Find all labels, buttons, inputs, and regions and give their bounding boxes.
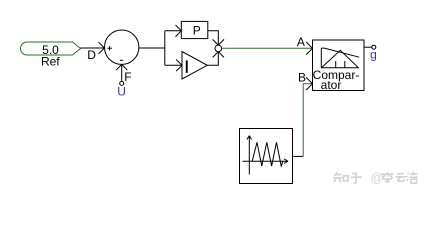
integrator block I (triangle) (182, 52, 207, 80)
constant source REF1 (pill shape) (21, 42, 81, 55)
arrowhead into I block (176, 60, 182, 72)
output terminal circle (372, 45, 376, 49)
arrowhead into comparator B (306, 77, 312, 90)
svg-text:D: D (87, 48, 96, 62)
icon axes (243, 137, 288, 175)
plus sign (107, 46, 112, 51)
svg-text:@: @ (371, 170, 384, 185)
svg-text:U: U (117, 84, 126, 98)
svg-text:B: B (298, 71, 306, 85)
axis arrowheads (247, 136, 288, 164)
arrowhead into summer left input (99, 42, 105, 54)
wire P output (208, 31, 219, 45)
comparator block (313, 40, 365, 91)
wire to I block (165, 64, 182, 66)
watermark 知乎 @李云浩 (333, 172, 418, 184)
svg-text:g: g (370, 48, 377, 62)
wire feedback input (bottom) (121, 64, 123, 81)
svg-text:Ref: Ref (41, 55, 60, 69)
svg-text:P: P (193, 23, 201, 37)
triangle wave source V1 (240, 129, 293, 184)
arrowhead into summer bottom input (116, 64, 127, 70)
label I (186, 60, 188, 73)
multiplier node (215, 45, 222, 52)
input terminal circle (120, 81, 124, 85)
wire to P block (165, 30, 182, 32)
wire source output stub (293, 155, 304, 157)
svg-text:A: A (297, 35, 305, 49)
wire summer output (139, 47, 165, 49)
wire (green) multiplier to comparator A (222, 47, 313, 49)
minus sign (120, 59, 123, 61)
arrowhead into multiplier top (213, 39, 224, 45)
summing junction U1 (105, 30, 139, 64)
wire I output (207, 52, 218, 66)
arrowhead into P block (176, 25, 182, 37)
wire branch vertical (164, 31, 166, 66)
wire comparator output (364, 46, 372, 48)
arrowhead into comparator A (306, 42, 312, 55)
icon triangle waveform (252, 142, 283, 166)
P block (181, 21, 208, 38)
svg-text:F: F (124, 70, 131, 84)
arrowhead into multiplier bottom (213, 52, 224, 58)
wire (green) source to comparator B (303, 84, 312, 157)
comparator icon (321, 48, 359, 68)
wire from Ref to summer (81, 47, 105, 49)
svg-text:ator: ator (321, 78, 342, 92)
